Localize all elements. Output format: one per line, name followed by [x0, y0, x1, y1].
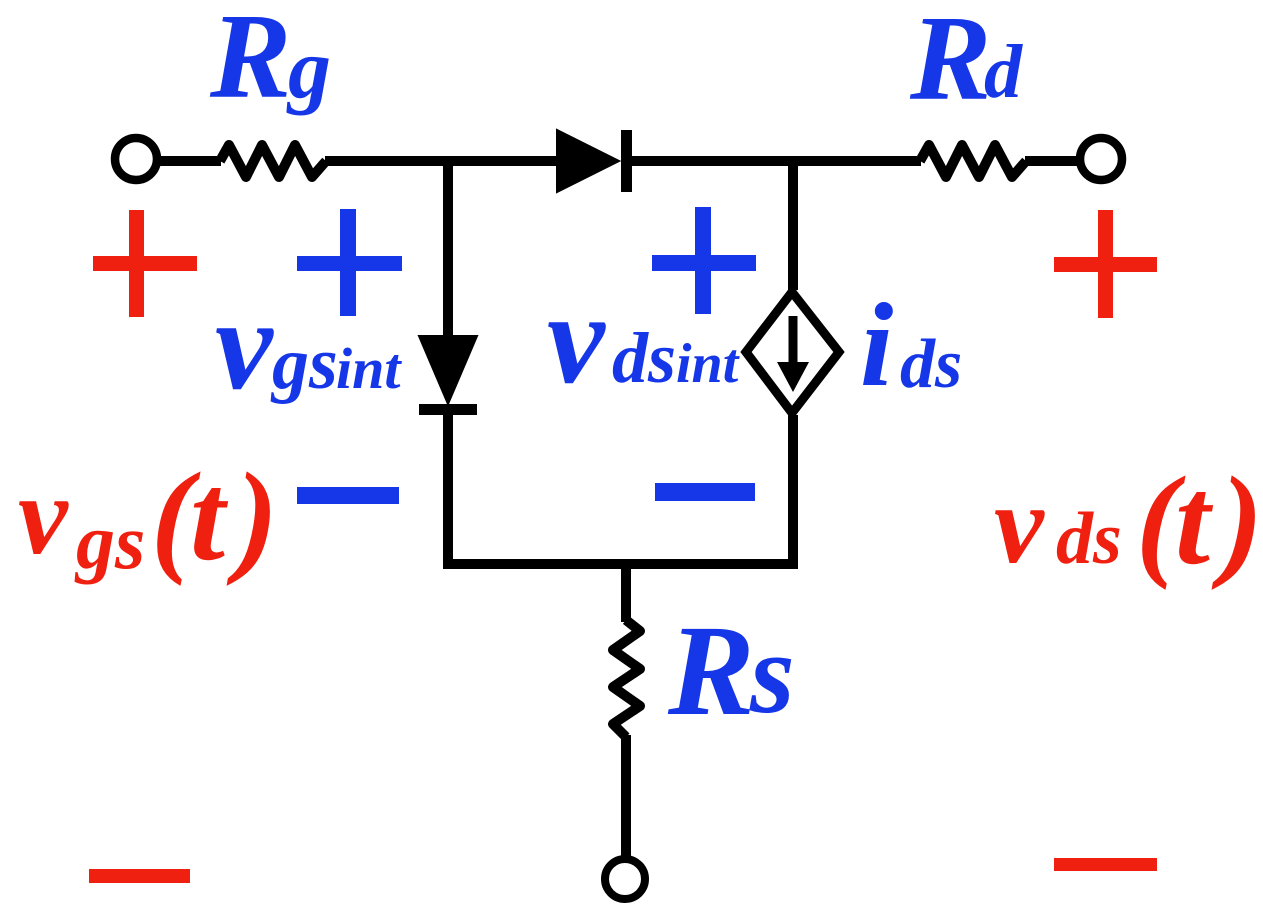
label Rd — [909, 0, 1023, 126]
dependent current source U1 (diamond) — [746, 292, 839, 413]
svg-text:t: t — [190, 448, 229, 587]
terminal T3 (source, bottom) — [605, 859, 645, 899]
minus sign blue left (vgsint negative) — [297, 487, 399, 504]
label vgsint — [215, 273, 402, 417]
svg-text:gs: gs — [270, 323, 338, 405]
plus sign blue left (vgsint polarity) — [297, 209, 402, 316]
svg-text:v: v — [18, 454, 69, 578]
plus sign red left (vgs polarity) — [93, 210, 197, 317]
svg-text:s: s — [749, 610, 795, 737]
wire from D2 to bottom wire — [443, 412, 453, 569]
label Rg — [209, 0, 331, 124]
diode D2 (vertical, pointing down) — [419, 336, 477, 415]
bottom wire (source net) — [443, 559, 798, 569]
wire from Rd to T2 — [1025, 156, 1079, 166]
wire left branch vertical (gate-int node down) — [443, 156, 453, 340]
wire from T1 to Rg — [159, 156, 221, 166]
svg-text:R: R — [909, 0, 991, 126]
wire right branch vertical (to current source) — [788, 156, 798, 290]
wire from bottom net down to Rs — [621, 564, 631, 622]
svg-text:ds: ds — [612, 318, 676, 398]
svg-text:v: v — [994, 463, 1045, 587]
minus sign red bottom right (vds negative) — [1054, 858, 1157, 871]
label ids (current source) — [860, 278, 962, 411]
resistor Rg — [220, 145, 326, 177]
svg-text:v: v — [547, 267, 606, 411]
label vds(t) — [994, 452, 1263, 591]
plus sign blue middle (vdsint polarity) — [652, 207, 756, 314]
wire from Rs to T3 — [621, 735, 631, 857]
svg-text:g: g — [286, 20, 331, 116]
svg-text:int: int — [336, 336, 402, 401]
svg-text:ds: ds — [1056, 498, 1122, 580]
resistor Rd — [920, 145, 1026, 177]
svg-text:ds: ds — [900, 326, 962, 403]
svg-text:R: R — [667, 599, 755, 743]
svg-text:R: R — [209, 0, 291, 124]
resistor Rs — [613, 620, 640, 737]
minus sign blue right (vdsint negative) — [655, 483, 755, 501]
svg-text:gs: gs — [74, 498, 145, 585]
svg-text:v: v — [215, 273, 274, 417]
terminal T1 (gate input, top left) — [115, 138, 157, 180]
wire from node to Rd — [793, 156, 921, 166]
svg-text:int: int — [676, 333, 740, 395]
diode D1 (horizontal, anode left) — [557, 130, 632, 192]
label vdsint — [547, 267, 740, 411]
minus sign red bottom left (vgs negative) — [89, 869, 190, 883]
svg-text:t: t — [1175, 452, 1214, 591]
plus sign red right (vds polarity) — [1054, 210, 1157, 318]
wire from Rg to diode D1 — [325, 156, 558, 166]
wire from D1 to drain-int node — [630, 156, 798, 166]
label vgs(t) — [18, 448, 278, 587]
terminal T2 (drain output, top right) — [1080, 138, 1122, 180]
svg-text:i: i — [860, 278, 893, 411]
label Rs — [667, 599, 795, 743]
svg-text:d: d — [984, 30, 1023, 114]
wire from current source to bottom wire — [788, 415, 798, 569]
